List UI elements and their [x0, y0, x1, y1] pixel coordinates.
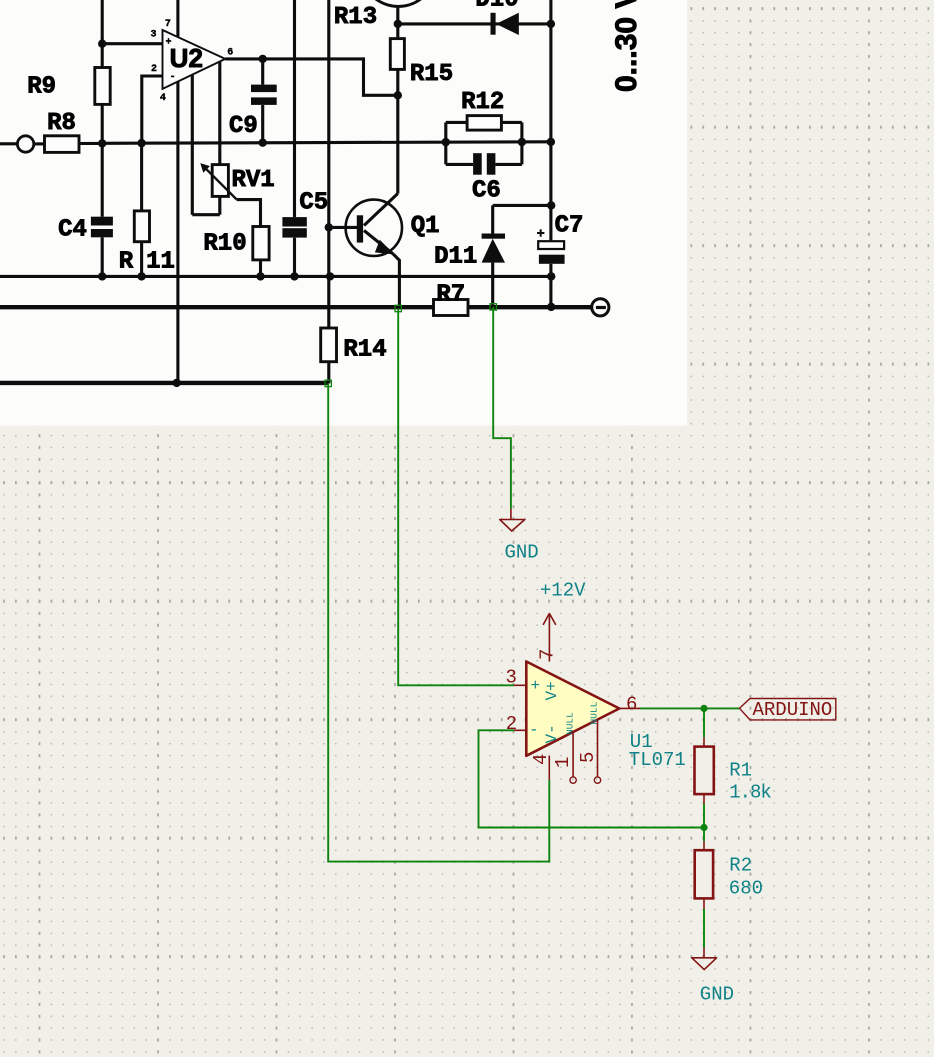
svg-text:6: 6 — [227, 48, 233, 59]
svg-text:RV1: RV1 — [231, 167, 274, 194]
svg-text:4: 4 — [160, 93, 166, 104]
svg-text:D10: D10 — [475, 0, 518, 14]
svg-text:D11: D11 — [434, 243, 477, 270]
svg-text:R7: R7 — [436, 282, 465, 309]
svg-text:ARDUINO: ARDUINO — [753, 699, 833, 721]
svg-text:V-: V- — [543, 724, 561, 743]
svg-text:6: 6 — [626, 694, 637, 716]
svg-text:R: R — [119, 249, 134, 276]
svg-text:11: 11 — [146, 249, 175, 276]
svg-text:R14: R14 — [343, 337, 386, 364]
svg-text:R9: R9 — [27, 74, 56, 101]
svg-text:5: 5 — [577, 752, 599, 763]
svg-text:R10: R10 — [203, 230, 246, 257]
svg-text:GND: GND — [700, 984, 734, 1006]
svg-text:U2: U2 — [170, 43, 203, 73]
svg-text:C7: C7 — [555, 213, 584, 240]
svg-text:V+: V+ — [543, 681, 561, 700]
svg-text:C5: C5 — [299, 189, 328, 216]
svg-text:7: 7 — [537, 649, 559, 660]
svg-text:R12: R12 — [461, 89, 504, 116]
svg-text:C9: C9 — [229, 113, 258, 140]
svg-text:TL071: TL071 — [629, 749, 686, 771]
svg-text:Q1: Q1 — [411, 213, 440, 240]
svg-text:R1: R1 — [729, 760, 752, 782]
svg-text:0...30 V: 0...30 V — [610, 0, 643, 92]
svg-text:R13: R13 — [334, 4, 377, 31]
svg-text:2: 2 — [151, 64, 157, 75]
svg-text:R2: R2 — [729, 855, 752, 877]
svg-text:1: 1 — [552, 757, 574, 768]
svg-text:680: 680 — [729, 878, 763, 900]
svg-text:-: - — [170, 72, 176, 83]
svg-text:GND: GND — [505, 542, 539, 564]
svg-text:4: 4 — [530, 754, 552, 765]
svg-text:3: 3 — [150, 30, 156, 41]
svg-text:+12V: +12V — [540, 580, 586, 602]
svg-text:R15: R15 — [410, 61, 453, 88]
svg-text:R8: R8 — [47, 110, 76, 137]
svg-text:2: 2 — [506, 713, 517, 735]
svg-text:1.8k: 1.8k — [729, 782, 771, 804]
svg-text:C6: C6 — [472, 177, 501, 204]
svg-text:7: 7 — [165, 19, 171, 30]
svg-text:+: + — [165, 38, 171, 49]
svg-text:3: 3 — [506, 667, 517, 689]
svg-text:C4: C4 — [58, 216, 87, 243]
svg-text:NULL: NULL — [589, 701, 600, 724]
svg-text:+: + — [531, 677, 541, 695]
svg-text:NULL: NULL — [565, 712, 576, 735]
svg-text:-: - — [529, 721, 539, 739]
